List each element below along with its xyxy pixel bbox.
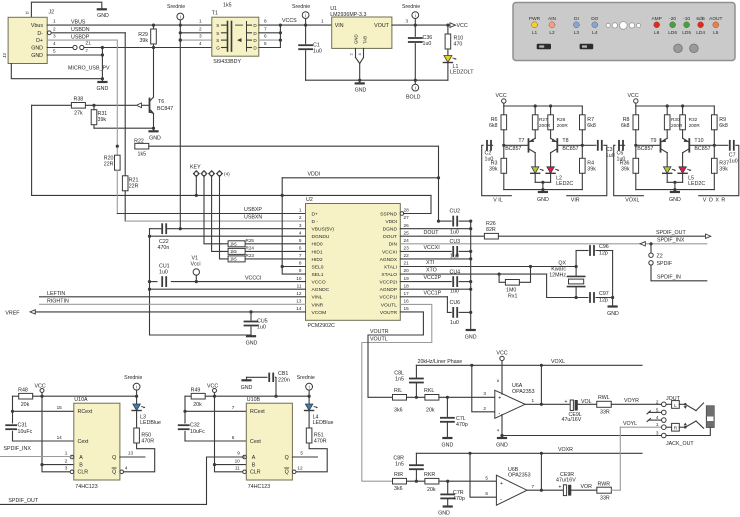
svg-text:5: 5 <box>485 476 488 481</box>
svg-text:39k: 39k <box>587 167 596 173</box>
capacitor C2 1u0 <box>487 144 493 146</box>
resistor R26 82R <box>484 233 498 239</box>
wire VOXR feedback line <box>416 452 642 454</box>
svg-text:VCC: VCC <box>496 93 507 99</box>
svg-text:AMP: AMP <box>651 16 661 22</box>
svg-text:74HC123: 74HC123 <box>75 484 97 490</box>
measure point Srednie at VOUT <box>412 12 419 19</box>
svg-text:Srednie: Srednie <box>402 4 420 10</box>
svg-text:DGND: DGND <box>383 227 398 233</box>
wire VOXR output riser <box>540 453 542 490</box>
svg-text:8: 8 <box>264 19 267 24</box>
wire opamp output to CE9R <box>527 489 563 491</box>
svg-text:200R: 200R <box>671 123 683 128</box>
svg-text:BC857: BC857 <box>694 146 710 152</box>
svg-text:S: S <box>216 38 219 43</box>
wire Cext row U10B <box>185 440 246 442</box>
wire VBUS net row1 <box>47 24 212 26</box>
wire XTALO branch to C97 <box>547 274 588 297</box>
wire right GND bus <box>470 221 472 329</box>
svg-text:LD6: LD6 <box>668 30 677 36</box>
capacitor C8R 1n5 <box>415 453 417 465</box>
resistor RKL 20k <box>425 395 439 401</box>
power VCC arrow <box>450 23 456 28</box>
svg-text:D -: D - <box>312 219 319 225</box>
svg-text:JACK_OUT: JACK_OUT <box>666 441 694 447</box>
measure point Srednie U10B <box>306 383 313 390</box>
svg-text:U10A: U10A <box>74 397 88 403</box>
svg-text:4: 4 <box>53 41 56 46</box>
svg-text:(4): (4) <box>224 172 230 177</box>
wire VBUS measure column <box>179 20 181 229</box>
svg-text:20k: 20k <box>426 408 435 414</box>
svg-text:5: 5 <box>299 238 302 243</box>
svg-text:Q: Q <box>285 470 289 476</box>
svg-text:VCCP2I: VCCP2I <box>379 280 397 286</box>
resistor R20 22R <box>116 148 118 155</box>
wire output feedback riser <box>540 365 542 404</box>
svg-text:200R: 200R <box>689 123 701 128</box>
transistor T10 BC857 <box>689 144 714 146</box>
svg-text:Srednie: Srednie <box>167 4 185 10</box>
svg-text:20k: 20k <box>427 487 436 493</box>
wire VCC rail VOXL/VOXR block <box>636 105 715 107</box>
svg-text:6dB: 6dB <box>696 16 705 22</box>
wire VCCP2I row10 to CU4 <box>400 281 451 283</box>
svg-text:10uFc: 10uFc <box>18 429 33 435</box>
wire U1 ground pins <box>355 48 357 57</box>
capacitor CU3 1u0 <box>452 247 454 256</box>
svg-text:21: 21 <box>404 261 410 266</box>
svg-text:VOUTR: VOUTR <box>370 329 389 335</box>
svg-text:3k6: 3k6 <box>394 486 403 492</box>
svg-text:1k5: 1k5 <box>230 257 237 262</box>
svg-text:XTALO: XTALO <box>381 272 397 278</box>
resistor R48 20k <box>13 395 19 397</box>
wire USBDP from J2 pin3 <box>47 39 117 41</box>
svg-text:22R: 22R <box>129 184 139 190</box>
svg-text:RWL: RWL <box>598 395 610 401</box>
wire B CLR tie U10A <box>42 396 74 472</box>
panel indicator board <box>513 3 735 61</box>
svg-text:11: 11 <box>297 283 302 288</box>
svg-text:GND: GND <box>537 197 549 203</box>
capacitor CU5 1u0 <box>250 312 252 320</box>
svg-text:1k5: 1k5 <box>138 152 147 158</box>
svg-text:1k5: 1k5 <box>230 242 237 247</box>
svg-text:12: 12 <box>296 291 302 296</box>
svg-text:VINR: VINR <box>312 302 324 308</box>
wire SPDIF_IN <box>651 265 707 281</box>
svg-text:VOYL: VOYL <box>623 421 637 427</box>
svg-text:1k5: 1k5 <box>223 3 232 9</box>
svg-text:i: i <box>136 385 137 390</box>
wire jack pin5 nc stub <box>648 411 661 413</box>
wire J2 pin5 to GND column <box>47 54 102 56</box>
wire RCext row U10B <box>185 410 246 412</box>
svg-text:GND: GND <box>438 511 450 517</box>
svg-text:XTALI: XTALI <box>384 264 397 270</box>
svg-text:CU3: CU3 <box>450 239 461 245</box>
led L2 red <box>547 167 555 174</box>
svg-text:27k: 27k <box>74 111 83 117</box>
svg-text:Vcci: Vcci <box>191 262 201 268</box>
svg-text:CB1: CB1 <box>278 371 288 377</box>
svg-text:R26: R26 <box>486 221 496 227</box>
svg-text:7: 7 <box>232 405 235 410</box>
resistor R38 27k <box>86 104 136 106</box>
svg-text:Q: Q <box>112 455 116 461</box>
svg-text:GND: GND <box>241 385 253 391</box>
wire crystal bottom <box>575 287 577 298</box>
wire gate net row4 to T1 pin4 <box>84 47 212 49</box>
svg-text:GND: GND <box>354 34 359 44</box>
resistor R27 200R <box>534 106 536 115</box>
svg-text:i: i <box>415 85 416 90</box>
ground GND crystal <box>609 305 617 307</box>
svg-text:Cext: Cext <box>250 439 261 445</box>
capacitor CU6 1u0 <box>452 308 454 317</box>
ground GND under C7R <box>444 505 452 507</box>
resistor R50 470R <box>136 411 138 429</box>
svg-text:1u0: 1u0 <box>257 325 266 331</box>
svg-text:XTO: XTO <box>426 268 437 274</box>
svg-text:RIR: RIR <box>394 472 403 478</box>
svg-text:HID1: HID1 <box>312 249 323 255</box>
resistor R21 22R <box>122 176 128 191</box>
wire KEY pin1 to VDDI wire <box>195 177 197 196</box>
svg-text:LED2C: LED2C <box>688 181 705 187</box>
svg-text:1u0: 1u0 <box>313 49 322 55</box>
svg-text:SPDIF_OUT: SPDIF_OUT <box>656 230 686 236</box>
wire CE9L to RWL <box>578 403 596 405</box>
wire VOYR to jack <box>611 403 661 405</box>
svg-text:VOR: VOR <box>581 484 593 490</box>
wire VCC rail VIL/VIR block <box>504 105 583 107</box>
wire feedback to opamp pin6 <box>470 453 496 497</box>
resistor R24 1k5 <box>222 250 306 252</box>
svg-text:5: 5 <box>264 41 267 46</box>
svg-text:1u0: 1u0 <box>423 41 432 47</box>
svg-text:PCM2902C: PCM2902C <box>308 323 336 329</box>
svg-text:20kHz/Liner Phase: 20kHz/Liner Phase <box>418 359 463 365</box>
wire ground rail under U1 <box>306 79 448 81</box>
resistor R32 200R <box>682 106 684 115</box>
pin bubble SSPND <box>400 212 404 216</box>
svg-text:39k: 39k <box>139 38 148 44</box>
svg-text:R27: R27 <box>539 117 548 122</box>
led L5 green <box>663 167 671 174</box>
wire CE9R to RWR <box>571 489 597 491</box>
svg-text:25: 25 <box>404 230 410 235</box>
svg-text:470p: 470p <box>456 422 468 428</box>
svg-text:C32: C32 <box>190 423 200 429</box>
svg-text:19: 19 <box>404 276 410 281</box>
svg-text:D-: D- <box>37 31 43 37</box>
wire T1 S3 row <box>180 39 212 41</box>
svg-text:26: 26 <box>404 223 410 228</box>
svg-text:A: A <box>79 455 83 461</box>
wire J2 frame bottom to GND <box>11 64 102 79</box>
svg-text:+: + <box>498 395 501 401</box>
wire DIN SPDIF_INX row5 <box>400 243 707 245</box>
wire T8 collector to red led <box>550 153 552 167</box>
svg-text:1: 1 <box>321 19 324 24</box>
svg-text:22R: 22R <box>104 162 114 168</box>
svg-text:Q: Q <box>285 455 289 461</box>
svg-text:11: 11 <box>235 466 240 471</box>
svg-text:LED2C: LED2C <box>556 181 573 187</box>
wire R box to switch <box>679 426 685 428</box>
svg-text:GND: GND <box>355 88 367 94</box>
wire R20 to U2 D+ row <box>116 170 118 213</box>
ground GND rail under CU5 <box>150 334 252 336</box>
capacitor CU2 1u0 <box>452 217 454 226</box>
resistor R22 1k5 pull-up <box>135 143 149 149</box>
svg-text:U10B: U10B <box>247 397 261 403</box>
svg-text:R30: R30 <box>671 117 680 122</box>
svg-text:1: 1 <box>199 19 202 24</box>
ground GND right bus <box>467 329 475 331</box>
svg-text:D+: D+ <box>36 38 43 44</box>
wire T6 collector <box>153 48 155 98</box>
svg-text:8: 8 <box>299 261 302 266</box>
svg-text:-10: -10 <box>683 16 690 22</box>
wire feedback to opamp inverting <box>472 365 495 412</box>
svg-text:1u0: 1u0 <box>729 159 738 165</box>
svg-text:2: 2 <box>65 459 68 464</box>
svg-text:Z2: Z2 <box>657 253 663 259</box>
svg-text:3: 3 <box>199 34 202 39</box>
svg-text:AGNDP: AGNDP <box>380 287 397 293</box>
svg-text:Vbus: Vbus <box>31 23 43 29</box>
mosfet T1 SI9433BDY <box>212 17 259 56</box>
svg-text:T9: T9 <box>650 138 656 144</box>
wire net stub VOXL <box>614 145 644 195</box>
ground GND VIL/VIR block <box>542 190 544 191</box>
svg-text:BC857: BC857 <box>562 146 578 152</box>
jack R contact box <box>672 423 680 431</box>
svg-text:28: 28 <box>404 208 410 213</box>
connector J2 MICRO_USB_PV <box>8 17 47 63</box>
svg-text:VCCO: VCCO <box>312 280 326 286</box>
panel switch 2 <box>580 44 594 50</box>
svg-text:SEL0: SEL0 <box>312 264 324 270</box>
pin bubbles U10A <box>70 455 74 459</box>
svg-text:USBXN: USBXN <box>244 215 262 221</box>
svg-text:GND: GND <box>465 335 477 341</box>
svg-text:T10: T10 <box>694 138 703 144</box>
svg-text:DIN: DIN <box>389 242 398 248</box>
wire R21 to U2 D- row <box>124 191 126 221</box>
svg-text:SI9433BDY: SI9433BDY <box>213 59 241 65</box>
svg-text:7: 7 <box>532 484 535 489</box>
wire XTALI row8 <box>400 266 576 268</box>
svg-text:AIN: AIN <box>548 16 557 22</box>
svg-text:3: 3 <box>299 223 302 228</box>
wire left GND bus vertical <box>149 229 151 335</box>
svg-text:VCOM: VCOM <box>312 310 327 316</box>
svg-text:RIGHTIN: RIGHTIN <box>47 298 69 304</box>
wire opamp pin4 to GND <box>501 415 503 436</box>
panel white hole row <box>606 23 610 27</box>
svg-text:200R: 200R <box>557 123 569 128</box>
resistor R3 39k <box>503 145 505 158</box>
svg-text:VCC: VCC <box>207 384 218 390</box>
svg-text:VCC: VCC <box>496 350 507 356</box>
svg-text:RIL: RIL <box>394 388 402 394</box>
svg-text:20k: 20k <box>21 402 30 408</box>
svg-text:L2: L2 <box>549 30 555 36</box>
svg-text:S: S <box>216 31 219 36</box>
svg-text:-: - <box>500 497 502 503</box>
svg-text:12: 12 <box>297 466 303 471</box>
wire led cathodes VOXL/VOXR block <box>666 173 668 182</box>
svg-text:SEL1: SEL1 <box>312 272 324 278</box>
wire L box to switch <box>679 403 685 405</box>
svg-text:Cext: Cext <box>78 439 89 445</box>
svg-text:L5: L5 <box>713 30 719 36</box>
svg-text:LD5: LD5 <box>682 30 691 36</box>
svg-text:39k: 39k <box>719 167 728 173</box>
svg-text:GND: GND <box>31 53 43 59</box>
svg-text:USBDP: USBDP <box>71 34 90 40</box>
svg-text:6k8: 6k8 <box>719 123 728 129</box>
opamp U6A OPA2353 <box>495 390 525 418</box>
svg-text:Q: Q <box>112 470 116 476</box>
svg-text:DOUT: DOUT <box>383 234 397 240</box>
svg-text:RKR: RKR <box>424 472 435 478</box>
svg-text:V O X R: V O X R <box>703 198 726 204</box>
svg-text:LM2936MP-3.3: LM2936MP-3.3 <box>330 12 366 18</box>
capacitor C7 1u0 <box>714 144 728 146</box>
wire RKR to opamp + pin5 <box>439 480 497 482</box>
svg-text:VOXL: VOXL <box>551 359 565 365</box>
svg-text:6k8: 6k8 <box>621 123 630 129</box>
svg-text:USBXP: USBXP <box>244 207 262 213</box>
svg-text:39k: 39k <box>621 167 630 173</box>
svg-text:7: 7 <box>299 253 302 258</box>
wire USBDP vertical with R20 <box>116 40 118 148</box>
svg-text:7: 7 <box>264 26 267 31</box>
svg-text:VDDI: VDDI <box>385 219 397 225</box>
svg-text:HID0: HID0 <box>312 242 323 248</box>
svg-text:i: i <box>180 14 181 19</box>
svg-text:+: + <box>564 399 567 405</box>
svg-text:12p: 12p <box>599 298 608 304</box>
svg-text:17: 17 <box>404 291 410 296</box>
svg-text:VOUTL: VOUTL <box>370 337 388 343</box>
svg-text:OPA2353: OPA2353 <box>508 473 531 479</box>
svg-text:GND: GND <box>442 443 454 449</box>
svg-text:VBUS(5V): VBUS(5V) <box>312 227 335 233</box>
pin bubbles U10B <box>243 455 247 459</box>
resistor R25 1k5 <box>222 243 306 245</box>
capacitor C97 12p <box>589 293 591 302</box>
svg-text:9: 9 <box>237 451 240 456</box>
svg-text:14: 14 <box>57 435 63 440</box>
resistor R23 1k5 <box>222 258 306 260</box>
wire RIL to RKL junction <box>407 396 425 398</box>
svg-text:6k8: 6k8 <box>587 123 596 129</box>
svg-text:LD4: LD4 <box>696 30 705 36</box>
jack L contact box <box>672 401 680 409</box>
wire J2 shield to GND <box>31 2 101 17</box>
svg-text:-20: -20 <box>669 16 676 22</box>
wire jack pin1 to R contact <box>666 426 672 428</box>
capacitor CU4 1u0 <box>452 277 454 286</box>
svg-text:C31: C31 <box>18 423 28 429</box>
svg-text:1: 1 <box>656 422 659 427</box>
svg-text:USBDN: USBDN <box>71 27 90 33</box>
svg-text:+: + <box>500 481 503 487</box>
ic U10B 74HC123 <box>246 403 292 480</box>
resistor R49 20k <box>185 395 191 397</box>
svg-text:MICRO_USB_PV: MICRO_USB_PV <box>68 66 110 72</box>
capacitor C96 12p <box>589 246 591 255</box>
wire J2 pin4 to jumper Z1 <box>47 47 73 49</box>
svg-text:15: 15 <box>404 306 410 311</box>
svg-text:20k: 20k <box>193 402 202 408</box>
switch contact upper <box>685 404 696 410</box>
wire KEY pin3 to HID1 row <box>212 177 222 252</box>
wire bottom rail VIL/VIR block <box>504 189 583 191</box>
wire sleeve to ground row <box>666 427 710 435</box>
wire R50 to notQ loop <box>124 443 155 472</box>
svg-text:A: A <box>252 455 256 461</box>
svg-text:TAB: TAB <box>363 36 368 44</box>
svg-text:LEDZOLT: LEDZOLT <box>450 69 474 75</box>
svg-text:SPDIF_INX: SPDIF_INX <box>657 238 685 244</box>
svg-text:VCCS: VCCS <box>282 18 297 24</box>
wire KEY pin4 to HID2 row <box>220 177 222 259</box>
svg-text:DGNDU: DGNDU <box>312 234 330 240</box>
wire bottom rail VOXL/VOXR block <box>636 189 715 191</box>
ground GND VOXL/VOXR block <box>674 190 676 191</box>
svg-text:1u0: 1u0 <box>450 230 459 236</box>
transistor T7 BC857 <box>504 144 529 146</box>
resistor R4 39k <box>581 145 583 158</box>
crystal QX Kwarc 12MHz <box>568 275 585 277</box>
svg-text:RWR: RWR <box>598 481 611 487</box>
wire RIR to RKR <box>407 480 425 482</box>
svg-text:L4: L4 <box>592 30 598 36</box>
svg-text:3k6: 3k6 <box>394 408 403 414</box>
led L3 LEDBlue <box>136 396 138 403</box>
svg-text:2: 2 <box>53 26 56 31</box>
svg-text:T7: T7 <box>518 138 524 144</box>
svg-text:24: 24 <box>404 238 410 243</box>
pin bubble J2 pin2 <box>47 31 51 35</box>
svg-text:3: 3 <box>406 19 409 24</box>
svg-text:6: 6 <box>299 245 302 250</box>
svg-text:74HC123: 74HC123 <box>248 484 270 490</box>
capacitor C36 1u0 <box>414 25 416 36</box>
svg-text:LEFTIN: LEFTIN <box>47 291 65 297</box>
measure point Srednie at VBUS <box>177 13 184 20</box>
resistor RIL 3k6 <box>393 395 407 401</box>
wire feedback 20kHz line <box>416 364 642 366</box>
svg-text:VOXL: VOXL <box>625 198 639 204</box>
svg-text:VOUTL: VOUTL <box>381 302 398 308</box>
wire R38 left loop to VDDI rail <box>32 104 72 106</box>
svg-text:6: 6 <box>264 34 267 39</box>
resistor R36 39k <box>635 145 637 158</box>
svg-text:3: 3 <box>53 34 56 39</box>
led L1 LEDZOLT yellow <box>444 56 452 63</box>
svg-text:39k: 39k <box>98 117 107 123</box>
svg-text:VCC: VCC <box>35 384 46 390</box>
